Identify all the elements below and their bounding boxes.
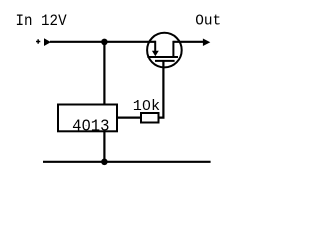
transistor Q1 source arrow <box>152 51 159 56</box>
wire node A to transistor source <box>104 41 155 43</box>
transistor Q1 source lead drop <box>154 41 156 51</box>
polarity + mark <box>36 39 40 43</box>
wire IC bottom to ground rail <box>103 132 105 162</box>
resistor R1 value 10k <box>133 97 160 115</box>
wire node A to IC top <box>103 42 105 105</box>
transistor Q1 drain lead drop <box>172 41 174 57</box>
resistor R1 body <box>141 113 159 123</box>
wire resistor to IC <box>117 116 141 118</box>
ground rail wire <box>43 161 211 163</box>
transistor Q1 body circle <box>147 33 182 68</box>
svg-text:In 12V: In 12V <box>16 14 67 31</box>
wire input to node A <box>50 41 104 43</box>
ground rail junction dot <box>101 159 108 166</box>
output arrow <box>203 39 210 47</box>
IC U1 4013 box <box>58 105 117 132</box>
wire gate lead down and to resistor <box>159 61 164 118</box>
wire drain to output <box>173 41 203 43</box>
input arrow <box>44 38 51 46</box>
transistor Q1 channel line <box>147 56 178 58</box>
node A junction dot <box>101 39 108 46</box>
IC U1 label 4013 <box>72 117 109 136</box>
svg-text:Out: Out <box>195 13 221 29</box>
transistor Q1 gate plate <box>155 60 175 62</box>
label In 12V <box>16 14 67 31</box>
